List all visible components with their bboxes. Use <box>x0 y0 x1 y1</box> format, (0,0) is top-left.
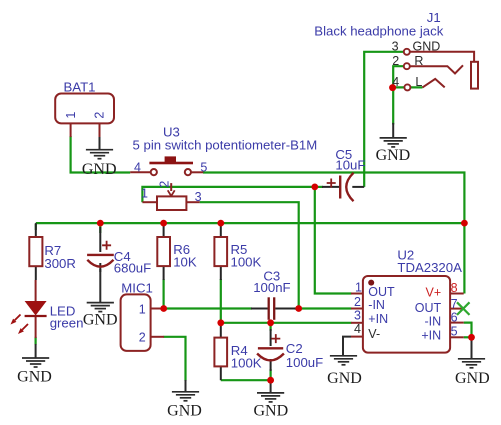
wire MIC1 pin2 to ground <box>164 337 186 381</box>
svg-text:-IN: -IN <box>368 298 385 312</box>
svg-text:100K: 100K <box>231 356 262 371</box>
svg-text:2: 2 <box>392 54 399 68</box>
svg-text:8: 8 <box>451 281 458 295</box>
svg-text:TDA2320A: TDA2320A <box>397 260 462 275</box>
svg-text:5 pin switch potentiometer-B1M: 5 pin switch potentiometer-B1M <box>133 138 318 153</box>
junction node C5 left / U2 out <box>311 184 318 191</box>
svg-text:1: 1 <box>141 186 148 200</box>
wire R7 top corner <box>35 224 37 230</box>
svg-text:Black headphone jack: Black headphone jack <box>314 24 443 39</box>
capacitor C5 <box>322 147 365 201</box>
svg-text:GND: GND <box>167 402 202 419</box>
capacitor C3 <box>251 268 296 319</box>
wire jack pin4 node <box>393 86 422 88</box>
svg-text:10K: 10K <box>173 254 197 269</box>
svg-text:5: 5 <box>200 160 207 174</box>
wire C3 right node to U2 pin2 <box>295 307 352 309</box>
svg-text:MIC1: MIC1 <box>121 280 153 295</box>
capacitor C2 <box>257 329 323 371</box>
svg-text:3: 3 <box>354 308 361 322</box>
svg-text:GND: GND <box>413 39 441 53</box>
svg-text:100nF: 100nF <box>253 280 290 295</box>
svg-text:L: L <box>415 75 422 89</box>
svg-text:7: 7 <box>451 297 458 311</box>
wire jack pin2 to pin4 junction <box>393 66 404 87</box>
wire +IN line to U2 pin3 <box>221 322 352 324</box>
svg-text:5: 5 <box>451 325 458 339</box>
switch part of U3 <box>130 125 317 176</box>
wire jack pin3 down to C5 right <box>364 52 404 187</box>
svg-text:3: 3 <box>392 40 399 54</box>
ground LED <box>35 344 37 358</box>
no-connect X on U2 pin7 <box>457 302 470 315</box>
battery BAT1 <box>55 79 114 137</box>
svg-text:+IN: +IN <box>368 312 388 326</box>
svg-text:GND: GND <box>376 147 411 164</box>
wire C2 bottom stub <box>270 369 272 380</box>
wire R5 bottom to +IN node <box>220 279 222 323</box>
wire V+ bus horizontal <box>36 222 465 224</box>
svg-text:1: 1 <box>139 302 146 316</box>
svg-text:C2: C2 <box>286 341 303 356</box>
ground U2 pin5 <box>471 337 473 359</box>
svg-text:4: 4 <box>354 322 361 336</box>
svg-text:4: 4 <box>134 160 141 174</box>
svg-text:V-: V- <box>368 327 380 341</box>
svg-text:+IN: +IN <box>421 328 441 342</box>
wire U2 pin6 to pin5 junction <box>464 323 472 338</box>
resistor R6 <box>157 223 197 280</box>
wire C4 top stub <box>99 223 101 233</box>
junction node R6 top on V+ bus <box>160 220 167 227</box>
ground U2 pin4 <box>343 337 351 356</box>
wire jack node down to ground <box>392 87 394 124</box>
wire switch pin5 to bus corner and down to U2 pin8 <box>203 173 464 294</box>
svg-text:10uF: 10uF <box>335 158 365 173</box>
svg-text:1: 1 <box>64 112 78 119</box>
svg-text:2: 2 <box>139 331 146 345</box>
svg-text:2: 2 <box>354 295 361 309</box>
wire MIC1 pin1 node to C3 left <box>164 307 252 309</box>
svg-text:GND: GND <box>17 368 52 385</box>
svg-text:-IN: -IN <box>425 315 442 329</box>
svg-text:3: 3 <box>195 190 202 204</box>
resistor R5 <box>214 223 261 280</box>
svg-text:100uF: 100uF <box>286 355 323 370</box>
svg-text:V+: V+ <box>426 286 442 300</box>
junction node R5/R4/+IN <box>217 319 224 326</box>
svg-text:green: green <box>50 315 84 330</box>
resistor R4 <box>214 323 261 380</box>
svg-text:OUT: OUT <box>368 285 395 299</box>
svg-text:2: 2 <box>157 181 171 188</box>
svg-text:GND: GND <box>455 370 490 387</box>
svg-text:1: 1 <box>355 280 362 294</box>
microphone MIC1 <box>121 280 164 351</box>
junction node U2 pin5/pin6 ground <box>468 334 475 341</box>
headphone jack J1 <box>314 10 478 90</box>
svg-text:GND: GND <box>82 161 117 178</box>
LED green <box>11 280 84 338</box>
junction node MIC1/R6/C3 <box>160 305 167 312</box>
junction node C3/U2 -IN <box>295 305 302 312</box>
wire battery pin1 to switch pin4 <box>71 136 131 173</box>
svg-text:OUT: OUT <box>415 301 442 315</box>
wire pot pin1 to C5 left junction <box>142 187 314 202</box>
junction node C2 bottom / R4 <box>267 377 274 384</box>
svg-text:100K: 100K <box>231 255 262 270</box>
junction node C2 top <box>267 319 274 326</box>
svg-text:2: 2 <box>92 112 106 119</box>
capacitor C4 <box>87 227 151 275</box>
svg-text:GND: GND <box>253 402 288 419</box>
junction node R5 top on V+ bus <box>217 220 224 227</box>
wire C5 junction down to U2 pin1 <box>315 187 352 294</box>
svg-text:GND: GND <box>327 370 362 387</box>
ground MIC1 <box>185 380 187 392</box>
junction node battery/switch... jack L/R tie <box>389 84 396 91</box>
ground jack <box>392 123 394 138</box>
svg-text:R: R <box>414 54 423 68</box>
wire R6 bottom to MIC node <box>163 279 165 309</box>
svg-text:GND: GND <box>83 311 118 328</box>
ground C4 <box>99 269 101 303</box>
junction node V+ bus right corner <box>461 220 468 227</box>
svg-text:6: 6 <box>451 311 458 325</box>
ground C2 <box>270 380 272 393</box>
svg-text:BAT1: BAT1 <box>64 79 96 94</box>
wire U2 pin5 stub green <box>464 336 472 338</box>
svg-text:680uF: 680uF <box>114 260 151 275</box>
resistor R7 <box>29 223 76 280</box>
ground battery <box>99 136 101 150</box>
wire C2 top stub <box>270 323 272 331</box>
wire C5 left lead green part <box>315 186 323 188</box>
wire pot pin3 to U2 pin2 node <box>200 202 299 308</box>
potentiometer part of U3 <box>141 181 202 210</box>
wire LED cathode green part <box>34 337 36 345</box>
op-amp U2 TDA2320A <box>351 248 464 353</box>
junction node C4 top on V+ bus <box>97 220 104 227</box>
svg-text:300R: 300R <box>44 256 76 271</box>
wire R4 bottom link to C2 bottom <box>221 379 271 381</box>
